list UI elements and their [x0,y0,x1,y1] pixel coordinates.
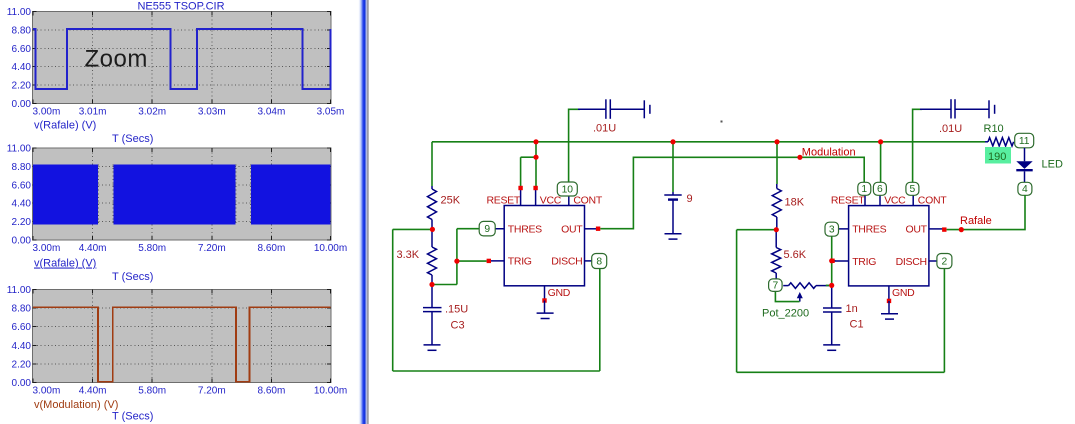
pin marker GND2 [887,299,891,303]
svg-text:C3: C3 [451,320,465,332]
wire TRIG1 link [457,260,487,262]
wire +9V rail [432,141,985,143]
wire THRES1 to bubble [457,228,479,230]
svg-text:DISCH: DISCH [896,256,927,268]
chart 3 plot background [33,290,332,383]
chart 3 tick marks [33,290,332,383]
U1 pin labels [486,195,602,299]
svg-text:RESET: RESET [831,195,865,207]
wire THRES1 link down [456,229,458,285]
capacitor C1 [823,285,842,345]
svg-text:VCC: VCC [884,195,906,207]
svg-text:VCC: VCC [540,195,562,207]
chart 2 x axis labels [33,243,348,254]
pin marker OUT2 [942,227,946,231]
wire VCC1 drop [535,142,537,190]
op-amp/timer U2 NE555 box [849,206,929,286]
potentiometer Pot_2200 track [783,285,788,287]
svg-text:Rafale: Rafale [960,215,992,227]
wire VCC2 drop [880,142,882,183]
ground below battery [665,234,682,239]
svg-text:5: 5 [910,184,916,195]
chart 1 waveform v(Rafale) zoomed square wave [33,29,331,89]
node node B junction dot [429,282,434,287]
node number bubble pin 2 [937,254,952,269]
pin marker TRIG2 [830,259,834,263]
node C1 top node junction dot [829,283,834,288]
wire left loop vertical [392,229,394,371]
wire pot wiper tie [775,292,799,302]
svg-text:RESET: RESET [486,195,520,207]
chart 3 waveform v(Modulation) square wave [33,307,331,381]
ground below C1 [823,345,840,350]
node rail-18K junction dot [774,139,779,144]
wire left loop to DISCH bubble [599,269,601,371]
wire DISCH2 loop vertical [736,230,738,373]
svg-text:1: 1 [861,184,867,195]
svg-text:Pot_2200: Pot_2200 [762,308,809,320]
node number bubble pin 9 [479,221,495,236]
chart 2 y axis labels [7,144,32,247]
chart 3 y axis labels [7,285,32,389]
wire left loop bottom [393,370,600,372]
svg-text:.01U: .01U [939,123,962,135]
svg-text:TRIG: TRIG [508,256,532,268]
wire THRES2 chain down [831,236,833,285]
svg-text:R10: R10 [984,123,1004,135]
svg-text:THRES: THRES [852,224,886,236]
chart 1 y axis labels [7,7,32,110]
U1 pin stubs [488,190,599,301]
capacitor C? .01U left [578,99,644,119]
svg-text:9: 9 [687,193,693,205]
ground right of right .01U cap (rotated) [989,100,995,118]
svg-text:DISCH: DISCH [551,256,582,268]
svg-text:THRES: THRES [508,224,542,236]
svg-text:OUT: OUT [561,224,583,236]
resistor R 18K [772,189,781,218]
node node A junction dot [430,227,435,232]
svg-text:25K: 25K [441,195,461,207]
wire 18K top lead [776,142,778,184]
svg-text:GND: GND [892,287,915,299]
svg-text:.15U: .15U [445,304,468,316]
wire DISCH2 loop bottom [737,371,945,373]
svg-text:CONT: CONT [918,195,947,207]
svg-text:3.3K: 3.3K [397,249,420,261]
node number bubble pin 10 [557,182,577,196]
node number bubble pin 3 [825,222,839,236]
chart 2 tick marks [33,148,332,240]
wire DISCH2 loop riser [943,269,945,373]
node rail-VCC2 junction dot [878,139,883,144]
node rail-VCC1 junction dot [533,139,538,144]
svg-text:2: 2 [942,256,948,267]
node number bubble pin 11 [1015,133,1034,148]
svg-text:Modulation: Modulation [802,147,856,159]
chart 3 grid [34,291,331,382]
svg-text:10: 10 [562,184,574,195]
chart 2 gap edge dotted lines [99,165,251,225]
chart 2 grid [34,149,331,239]
wire RESET1 tie vertical [520,157,522,190]
svg-text:1n: 1n [846,303,858,315]
chart 1 grid [34,13,331,103]
node number bubble pin 8 [592,254,607,269]
svg-text:LED: LED [1042,159,1063,171]
stray text dot [721,121,723,123]
pin marker GND1 [542,298,546,302]
svg-text:GND: GND [548,287,571,299]
U2 pin stubs [832,190,943,301]
node number bubble pin 1 [858,182,871,195]
node Modulation anchor junction dot [797,155,802,160]
wire RESET1 tie horizontal [521,156,536,158]
node rail-battery junction dot [670,139,675,144]
chart 2 plot background [33,148,332,240]
node TRIG1 tee junction dot [454,259,459,264]
svg-text:6: 6 [877,184,883,195]
svg-text:190: 190 [988,151,1006,163]
resistor R 3.3K [431,229,433,247]
U1 GND lead [544,301,546,314]
node number bubble pin 7 [769,279,783,292]
svg-text:11: 11 [1019,136,1030,147]
node TRIG2 node junction dot [829,258,834,263]
wire pot right terminal [826,284,832,286]
svg-text:9: 9 [484,224,490,235]
svg-text:7: 7 [773,281,779,292]
op-amp/timer U1 NE555 box [504,206,584,286]
resistor R 25K [428,189,437,220]
chart 1 plot background [33,12,332,104]
ground below U2 GND [881,314,898,319]
pin marker RESET1 [518,186,522,190]
wire DISCH2 loop left [737,229,777,231]
wire OUT1 to riser [600,157,864,228]
resistor R 5.6K [775,230,777,248]
capacitor C? .01U right [920,99,989,118]
pin marker OUT1 [596,227,600,231]
wire CONT2 riser [913,109,922,182]
svg-text:4: 4 [1022,184,1028,195]
chart 3 x axis labels [33,386,348,397]
node number bubble pin 5 [906,182,919,195]
ground below U1 GND [537,313,554,318]
chart 2 waveform v(Rafale) dense oscillation bands [33,165,98,225]
wire 25K top lead [431,142,433,186]
node number bubble pin 6 [873,182,886,195]
chart 1 x axis labels [33,107,345,118]
diode LED D1 [1016,148,1032,183]
svg-text:5.6K: 5.6K [784,249,807,261]
resistor R10 [985,141,988,143]
svg-text:.01U: .01U [593,123,616,135]
wire OUT2 to LED [947,195,1025,229]
pin marker VCC1 [533,186,537,190]
node Rafale anchor junction dot [959,227,964,232]
wire TRIG2 link [832,260,836,262]
R10 value 190 highlighted [985,147,1011,164]
Pot_2200 wiper arrow [799,297,801,302]
svg-text:18K: 18K [785,197,805,209]
pin marker TRIG1 [487,259,491,263]
U2 pin labels [831,195,947,299]
node node 18K/5.6K junction dot [774,227,779,232]
svg-text:CONT: CONT [573,195,602,207]
node RESET1 tie junction dot [533,155,538,160]
wire CONT1 riser [569,109,580,182]
ground below C3 [424,345,441,350]
U2 GND lead [888,301,890,314]
svg-text:OUT: OUT [906,224,928,236]
wire battery top lead [672,142,674,192]
svg-text:8: 8 [596,256,602,267]
wire node B to C3 top [432,284,457,286]
svg-text:TRIG: TRIG [852,256,876,268]
ground right of left .01U cap (rotated) [644,100,650,118]
node number bubble pin 4 [1018,182,1032,195]
chart 1 tick marks [33,12,332,104]
wire node A left leg [393,228,433,230]
svg-text:3: 3 [829,225,835,236]
svg-text:C1: C1 [850,319,864,331]
capacitor C3 [423,285,442,345]
